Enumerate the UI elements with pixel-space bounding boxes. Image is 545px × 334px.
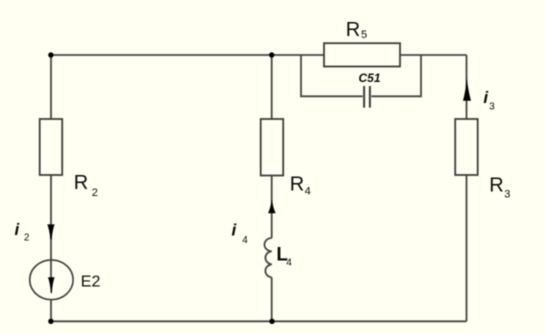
svg-text:3: 3 bbox=[489, 101, 495, 112]
svg-text:4: 4 bbox=[305, 186, 311, 198]
svg-text:2: 2 bbox=[24, 232, 30, 243]
svg-text:R: R bbox=[290, 174, 304, 196]
svg-text:2: 2 bbox=[92, 187, 98, 199]
svg-text:C51: C51 bbox=[359, 71, 381, 85]
svg-text:R: R bbox=[346, 19, 360, 41]
svg-text:R: R bbox=[489, 175, 503, 197]
svg-text:R: R bbox=[74, 172, 88, 194]
svg-text:4: 4 bbox=[242, 235, 248, 246]
svg-text:E2: E2 bbox=[81, 273, 101, 290]
svg-text:3: 3 bbox=[504, 188, 510, 200]
svg-text:4: 4 bbox=[286, 258, 292, 269]
svg-text:5: 5 bbox=[361, 29, 367, 41]
